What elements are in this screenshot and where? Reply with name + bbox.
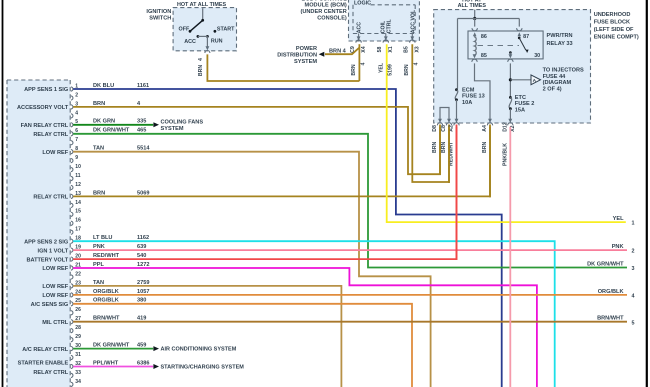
relay coil xyxy=(475,37,477,56)
node pin 33 connector xyxy=(71,373,73,377)
svg-text:START: START xyxy=(217,26,235,32)
node pin 17 connector xyxy=(71,230,73,234)
node pin 27 connector xyxy=(71,320,73,324)
svg-text:DK GRN/WHT: DK GRN/WHT xyxy=(93,128,130,134)
wire BRN 5069 pin13 to fuse block A4 xyxy=(73,125,490,197)
svg-text:34: 34 xyxy=(75,379,81,385)
fuse block pin A4 xyxy=(488,119,492,123)
node pin 5 connector xyxy=(71,123,73,127)
svg-text:CONSOLE): CONSOLE) xyxy=(317,15,347,21)
svg-text:IGNITION: IGNITION xyxy=(146,9,171,15)
svg-text:419: 419 xyxy=(137,316,146,322)
PCM connector box xyxy=(7,80,70,387)
wire PPL 1272 pin21 to bottom edge xyxy=(73,268,537,387)
svg-text:26: 26 xyxy=(75,307,81,313)
svg-text:58: 58 xyxy=(377,47,383,53)
svg-text:380: 380 xyxy=(137,298,146,304)
svg-text:RUN: RUN xyxy=(211,38,223,44)
svg-text:PPL: PPL xyxy=(93,262,104,268)
node pin 23 connector xyxy=(71,284,73,288)
svg-text:1057: 1057 xyxy=(137,289,149,295)
svg-text:(LEFT SIDE OF: (LEFT SIDE OF xyxy=(594,27,634,33)
fuse block pin D12 xyxy=(508,119,512,123)
svg-text:TAN: TAN xyxy=(93,280,104,286)
svg-text:BRN: BRN xyxy=(351,64,357,75)
svg-text:STARTING/CHARGING SYSTEM: STARTING/CHARGING SYSTEM xyxy=(161,365,245,371)
svg-text:DISTRIBUTION: DISTRIBUTION xyxy=(277,53,317,59)
svg-text:ORG/BLK: ORG/BLK xyxy=(598,289,624,295)
wire BRN/WHT 419 pin27 to right edge 5 xyxy=(73,321,627,323)
svg-text:POWER: POWER xyxy=(296,46,317,52)
node pin 6 connector xyxy=(71,132,73,136)
svg-text:D8: D8 xyxy=(432,125,438,132)
svg-text:BRN: BRN xyxy=(404,64,410,75)
wire BRN fuse block D8 stub xyxy=(439,127,441,175)
svg-text:15A: 15A xyxy=(515,107,525,113)
wire jumper D8-C8 xyxy=(440,108,449,122)
svg-text:540: 540 xyxy=(137,253,146,259)
svg-text:LT BLU: LT BLU xyxy=(93,235,112,241)
svg-text:2759: 2759 xyxy=(137,280,149,286)
svg-text:AIR CONDITIONING SYSTEM: AIR CONDITIONING SYSTEM xyxy=(161,347,237,353)
node pin 10 connector xyxy=(71,168,73,172)
wire to ECM fuse xyxy=(457,19,459,89)
wire RED/WHT 540 pin20 to fuse block A2 xyxy=(73,125,456,260)
svg-text:28: 28 xyxy=(75,325,81,331)
svg-text:BATTERY VOLT: BATTERY VOLT xyxy=(26,257,68,263)
svg-text:FUSE 44: FUSE 44 xyxy=(543,74,567,80)
svg-text:APP SENS 1 SIG: APP SENS 1 SIG xyxy=(24,87,68,93)
svg-text:X1: X1 xyxy=(388,46,394,52)
svg-text:MIL CTRL: MIL CTRL xyxy=(42,320,69,326)
svg-text:DK BLU: DK BLU xyxy=(93,83,114,89)
wire relay 85 to A4 xyxy=(475,63,491,121)
svg-text:B5: B5 xyxy=(404,46,410,53)
svg-text:11: 11 xyxy=(75,173,81,179)
svg-text:3: 3 xyxy=(632,266,635,272)
svg-text:1162: 1162 xyxy=(137,235,149,241)
node feed junction xyxy=(473,17,476,20)
node pin 3 connector xyxy=(71,105,73,109)
svg-text:ECM: ECM xyxy=(462,87,475,93)
svg-text:33: 33 xyxy=(75,370,81,376)
svg-text:2: 2 xyxy=(632,249,635,255)
svg-text:16: 16 xyxy=(75,218,81,224)
svg-text:HOT AT ALL TIMES: HOT AT ALL TIMES xyxy=(177,2,227,8)
svg-text:DK GRN/WHT: DK GRN/WHT xyxy=(587,262,624,268)
svg-text:BRN 4: BRN 4 xyxy=(329,48,347,54)
svg-text:ACC: ACC xyxy=(357,22,363,33)
svg-text:APP SENS 2 SIG: APP SENS 2 SIG xyxy=(24,239,68,245)
svg-text:639: 639 xyxy=(137,244,146,250)
svg-text:ACCESSORY VOLT: ACCESSORY VOLT xyxy=(17,105,69,111)
arrow to air conditioning system xyxy=(153,346,159,351)
svg-text:DK GRN/WHT: DK GRN/WHT xyxy=(93,342,130,348)
svg-text:DK GRN: DK GRN xyxy=(93,119,115,125)
svg-text:85: 85 xyxy=(481,53,487,59)
wire ORG/BLK 380 pin25 to bottom edge xyxy=(73,304,412,387)
switch blade ignition xyxy=(190,20,203,31)
node pin 16 connector xyxy=(71,221,73,225)
wire TAN 2759 pin23 to bottom edge xyxy=(73,286,341,387)
svg-text:RELAY CTRL: RELAY CTRL xyxy=(33,370,68,376)
svg-text:RED/WHT: RED/WHT xyxy=(93,253,120,259)
svg-text:BRN: BRN xyxy=(441,142,447,153)
svg-text:IGN 1 VOLT: IGN 1 VOLT xyxy=(38,248,69,254)
node RUN xyxy=(206,35,209,38)
arrow to cooling fans system xyxy=(153,122,159,127)
relay pin 85 out xyxy=(474,55,476,57)
svg-text:BRN: BRN xyxy=(432,142,438,153)
svg-text:SYSTEM: SYSTEM xyxy=(294,59,317,65)
wire DK BLU 1161 pin1 to bottom edge xyxy=(73,89,502,387)
svg-text:1272: 1272 xyxy=(137,262,149,268)
svg-text:FUSE 2: FUSE 2 xyxy=(515,101,535,107)
svg-text:4: 4 xyxy=(360,62,366,65)
BCM logic box xyxy=(371,4,416,6)
node pin 21 connector xyxy=(71,266,73,270)
node pin 32 connector xyxy=(71,364,73,368)
svg-text:A/C SENS SIG: A/C SENS SIG xyxy=(31,302,69,308)
body control module BCM box xyxy=(349,0,420,41)
svg-text:BRN: BRN xyxy=(482,142,488,153)
svg-text:PNK/BLK: PNK/BLK xyxy=(502,143,508,166)
wire PNK/BLK fuse block X2 to bottom xyxy=(509,127,511,387)
left page border xyxy=(2,0,4,387)
wire relay 30 down xyxy=(509,63,511,97)
relay switch blade xyxy=(518,37,521,40)
node pin 19 connector xyxy=(71,248,73,252)
node pin 12 connector xyxy=(71,185,73,189)
wire to relay 87 xyxy=(518,19,520,27)
svg-text:RELAY 33: RELAY 33 xyxy=(547,41,573,47)
node pin 34 connector xyxy=(71,382,73,386)
node pin 28 connector xyxy=(71,329,73,333)
svg-text:2 OF 4): 2 OF 4) xyxy=(543,86,562,92)
svg-text:A/C RELAY CTRL: A/C RELAY CTRL xyxy=(22,347,69,353)
svg-text:FAN RELAY CTRL: FAN RELAY CTRL xyxy=(21,123,69,129)
svg-text:BRN: BRN xyxy=(93,101,105,107)
ignition switch box xyxy=(173,8,236,51)
node pin 22 connector xyxy=(71,275,73,279)
node pin 8 connector xyxy=(71,150,73,154)
svg-text:C8: C8 xyxy=(441,125,447,132)
wire DK GRN 335 pin5 to cooling fans arrow xyxy=(73,124,153,126)
svg-text:9: 9 xyxy=(75,155,78,161)
svg-text:5514: 5514 xyxy=(137,146,150,152)
svg-text:LOW REF: LOW REF xyxy=(42,284,68,290)
svg-text:A: A xyxy=(533,78,537,84)
svg-text:7: 7 xyxy=(75,137,78,143)
node pin 1 connector xyxy=(71,87,73,91)
svg-text:5199: 5199 xyxy=(388,64,394,76)
wire PPL/WHT 6386 pin32 to starting arrow xyxy=(73,366,153,368)
node ACC xyxy=(197,35,200,38)
svg-text:6386: 6386 xyxy=(137,360,149,366)
wire BRN 4 BCM X4 to ignition junction xyxy=(358,44,360,81)
svg-text:MODULE (BCM): MODULE (BCM) xyxy=(305,3,347,9)
svg-text:BRN/WHT: BRN/WHT xyxy=(597,316,624,322)
svg-text:BRN: BRN xyxy=(93,190,105,196)
ignition output connector xyxy=(205,51,210,54)
svg-text:17: 17 xyxy=(75,227,81,233)
wire BRN 4 pin3 to fuse block D8 xyxy=(73,107,440,174)
wire DK GRN/WHT 465 pin6 to right edge 3 xyxy=(73,134,627,268)
wire ACC-RUN link xyxy=(198,35,208,37)
svg-text:YEL: YEL xyxy=(379,62,385,73)
svg-text:15: 15 xyxy=(75,209,81,215)
svg-text:LOW REF: LOW REF xyxy=(42,293,68,299)
wire feed split horizontal xyxy=(458,18,520,20)
relay PWR/TRN RELAY 33 box xyxy=(468,31,543,59)
fuse block pin D8 xyxy=(438,119,442,123)
node pin 9 connector xyxy=(71,159,73,163)
svg-text:ENGINE COMPT): ENGINE COMPT) xyxy=(594,35,639,41)
node pin 29 connector xyxy=(71,338,73,342)
svg-text:BRN: BRN xyxy=(198,65,204,76)
svg-text:PNK: PNK xyxy=(93,244,105,250)
fuse ECM FUSE 13 10A xyxy=(455,88,458,91)
svg-text:FUSE BLOCK: FUSE BLOCK xyxy=(594,20,630,26)
fuse block pin C8 xyxy=(447,119,451,123)
relay pin 30 out xyxy=(509,51,512,54)
svg-text:YEL: YEL xyxy=(613,216,624,222)
wire ORG/BLK 1057 pin24 to right edge 4 xyxy=(73,294,627,296)
svg-text:2: 2 xyxy=(75,92,78,98)
node injector branch junction xyxy=(509,78,512,81)
svg-text:5: 5 xyxy=(632,320,635,326)
symbol A to injectors xyxy=(531,75,541,85)
svg-text:ORG/BLK: ORG/BLK xyxy=(93,289,119,295)
svg-text:ETC: ETC xyxy=(515,95,526,101)
wire LT BLU 1162 pin18 to bottom edge xyxy=(73,241,555,387)
svg-text:PWR/TRN: PWR/TRN xyxy=(547,33,573,39)
svg-text:30: 30 xyxy=(534,53,540,59)
wire to injectors branch xyxy=(510,79,530,81)
node pin 24 connector xyxy=(71,293,73,297)
svg-text:X4: X4 xyxy=(361,46,367,52)
svg-text:335: 335 xyxy=(137,119,146,125)
svg-text:TAN: TAN xyxy=(93,146,104,152)
svg-text:CTRL: CTRL xyxy=(386,19,392,34)
node OFF xyxy=(189,30,192,33)
node pin 25 connector xyxy=(71,302,73,306)
node pin 14 connector xyxy=(71,203,73,207)
svg-text:(UNDER CENTER: (UNDER CENTER xyxy=(300,9,346,15)
svg-text:10A: 10A xyxy=(462,100,472,106)
svg-text:1: 1 xyxy=(632,221,635,227)
node pin 2 connector xyxy=(71,96,73,100)
svg-text:UNDERHOOD: UNDERHOOD xyxy=(594,12,631,18)
wire to relay 86 xyxy=(474,19,476,27)
svg-text:ALL TIMES: ALL TIMES xyxy=(458,3,487,9)
node pin 18 connector xyxy=(71,239,73,243)
wire BRN fuse block A4 stub xyxy=(489,127,491,198)
node pin 13 connector xyxy=(71,194,73,198)
svg-text:12: 12 xyxy=(75,182,81,188)
svg-text:29: 29 xyxy=(75,334,81,340)
node pin 31 connector xyxy=(71,355,73,359)
svg-text:14: 14 xyxy=(75,200,81,206)
svg-text:LOW REF: LOW REF xyxy=(42,266,68,272)
svg-text:BRN/WHT: BRN/WHT xyxy=(93,316,120,322)
node pin 11 connector xyxy=(71,176,73,180)
underhood fuse block box xyxy=(434,10,591,123)
svg-text:22: 22 xyxy=(75,271,81,277)
svg-text:RELAY CTRL: RELAY CTRL xyxy=(33,132,68,138)
svg-text:10: 10 xyxy=(75,164,81,170)
svg-text:D12: D12 xyxy=(502,122,508,132)
svg-text:SWITCH: SWITCH xyxy=(149,16,171,22)
svg-text:A4: A4 xyxy=(482,125,488,132)
svg-text:4: 4 xyxy=(75,110,78,116)
node START xyxy=(214,30,217,33)
svg-text:RELAY CTRL: RELAY CTRL xyxy=(33,195,68,201)
svg-text:4: 4 xyxy=(198,58,204,61)
wire PNK 639 pin19 to right edge 2 xyxy=(73,249,627,251)
node pin 4 connector xyxy=(71,114,73,118)
fuse ETC FUSE 2 15A xyxy=(509,96,512,99)
wire BRN 4 BCM X3 to fuse block C8 xyxy=(412,44,449,182)
node pin 26 connector xyxy=(71,311,73,315)
wire branch BRN 4 to power distribution xyxy=(325,48,359,55)
svg-text:459: 459 xyxy=(137,342,146,348)
svg-text:PNK: PNK xyxy=(612,244,624,250)
svg-text:4: 4 xyxy=(632,294,635,300)
svg-text:LOW REF: LOW REF xyxy=(42,150,68,156)
wire DK GRN/WHT 459 pin30 to A/C arrow xyxy=(73,348,153,350)
node pin 20 connector xyxy=(71,257,73,261)
svg-text:LOGIC: LOGIC xyxy=(354,0,371,6)
svg-text:FUSE 13: FUSE 13 xyxy=(462,94,485,100)
svg-text:ORG/BLK: ORG/BLK xyxy=(93,298,119,304)
svg-text:87: 87 xyxy=(523,34,529,40)
svg-text:COOLING FANS: COOLING FANS xyxy=(161,120,204,126)
wire ignition output xyxy=(206,36,208,48)
wire YEL 5199 BCM X1 down to right edge 1 xyxy=(387,44,626,222)
svg-text:STARTER ENABLE: STARTER ENABLE xyxy=(18,360,69,366)
svg-text:465: 465 xyxy=(137,128,146,134)
wire TAN 5514 pin8 to bottom edge xyxy=(73,152,430,387)
wire ignition feed xyxy=(202,8,204,20)
node pin 15 connector xyxy=(71,212,73,216)
svg-text:PPL/WHT: PPL/WHT xyxy=(93,360,119,366)
svg-text:OFF: OFF xyxy=(179,26,190,32)
svg-text:(DIAGRAM: (DIAGRAM xyxy=(543,80,572,86)
svg-text:1161: 1161 xyxy=(137,83,149,89)
wire hot feed into fuse block xyxy=(474,10,476,19)
svg-text:ACC VOL: ACC VOL xyxy=(410,9,416,33)
arrow to power distribution system xyxy=(319,52,325,57)
svg-text:TO INJECTORS: TO INJECTORS xyxy=(543,68,584,74)
wire BRN 4 ignition to BCM xyxy=(207,54,359,81)
node pin 30 connector xyxy=(71,347,73,351)
svg-text:4: 4 xyxy=(413,62,419,65)
node pin 7 connector xyxy=(71,141,73,145)
svg-text:X3: X3 xyxy=(415,46,421,52)
relay internal dashed link xyxy=(478,45,520,47)
svg-text:31: 31 xyxy=(75,352,81,358)
svg-text:ACC: ACC xyxy=(184,39,196,45)
svg-text:5069: 5069 xyxy=(137,190,149,196)
arrow to starting/charging system xyxy=(153,364,159,369)
fuse block pin A2 xyxy=(455,119,459,123)
wire RED/WHT fuse block A2 stub xyxy=(456,127,458,260)
svg-text:86: 86 xyxy=(481,34,487,40)
wire BRN fuse block C8 stub xyxy=(448,127,450,183)
svg-text:SYSTEM: SYSTEM xyxy=(161,126,184,132)
right page border xyxy=(646,0,648,387)
